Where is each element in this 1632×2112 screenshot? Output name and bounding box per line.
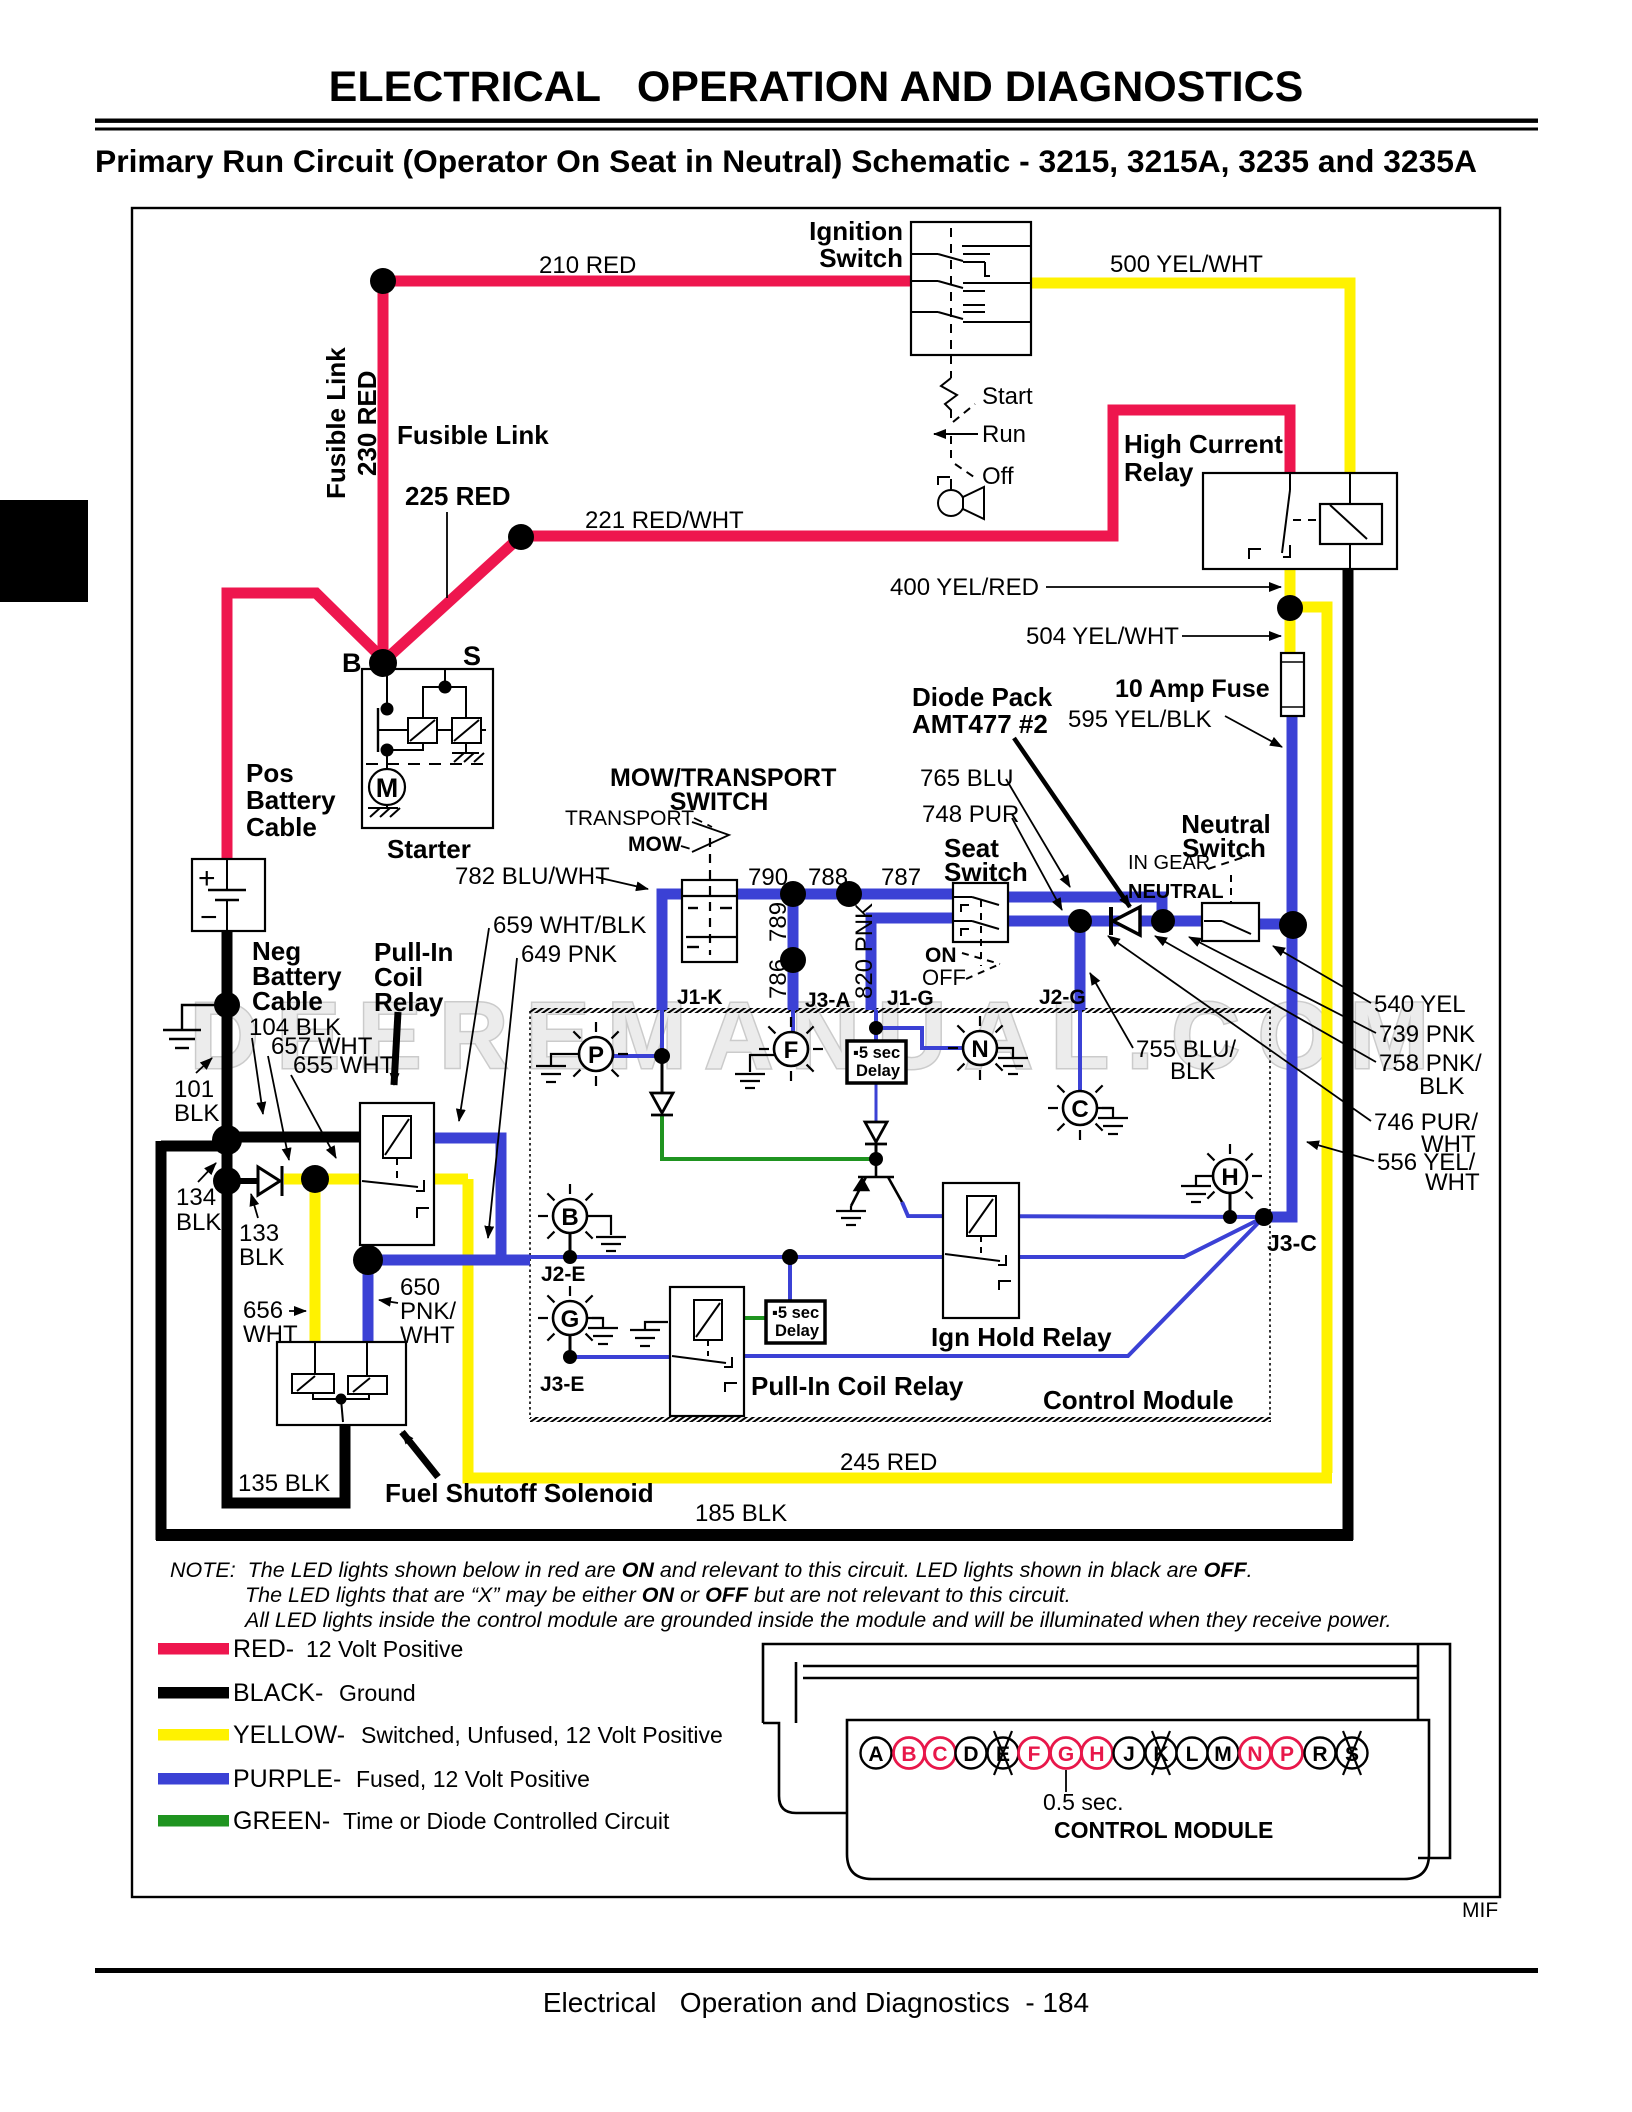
node 650 PNK junction	[353, 1245, 383, 1275]
LED H red	[1082, 1738, 1113, 1769]
legend GREEN swatch	[158, 1815, 229, 1827]
diode pack AMT477 #2 D1	[1111, 907, 1140, 935]
svg-text:M: M	[376, 773, 399, 803]
transistor Q1	[851, 1166, 902, 1206]
THIN MODULE WIRES	[530, 1010, 1264, 1357]
svg-text:12 Volt Positive: 12 Volt Positive	[306, 1636, 463, 1662]
svg-text:A: A	[868, 1743, 883, 1766]
pointer fuel shutoff solenoid arrow	[402, 1432, 438, 1477]
wire node drop to 5sec delay 2	[788, 1257, 792, 1301]
wire 245 RED bottom yellow run	[468, 1179, 1332, 1478]
svg-text:C: C	[932, 1743, 947, 1766]
svg-text:Cable: Cable	[252, 986, 323, 1016]
LED K crossed	[1146, 1738, 1177, 1769]
wire 656 WHT yellow into relay left	[284, 1174, 360, 1185]
svg-text:C: C	[1071, 1096, 1088, 1123]
svg-text:L: L	[1186, 1743, 1199, 1766]
wire 5sec to diode to transistor	[875, 1082, 878, 1121]
svg-text:CONTROL MODULE: CONTROL MODULE	[1054, 1817, 1273, 1843]
svg-text:PNK/: PNK/	[400, 1298, 456, 1325]
wire green module relay to 5sec	[744, 1316, 766, 1320]
wire 210 RED	[383, 276, 911, 287]
ground G	[587, 1318, 618, 1344]
wire 650 PNK/WHT relay right blue	[433, 1138, 501, 1264]
node 134 BLK junction	[213, 1167, 241, 1195]
wire diode to transistor node	[875, 1142, 878, 1166]
svg-text:Fusible Link: Fusible Link	[397, 420, 549, 450]
svg-text:WHT: WHT	[400, 1322, 455, 1349]
wire node to diode	[661, 1056, 664, 1092]
svg-text:185 BLK: 185 BLK	[695, 1500, 787, 1527]
svg-text:748 PUR: 748 PUR	[922, 801, 1019, 828]
ground C	[1097, 1108, 1128, 1134]
LED S crossed	[1337, 1738, 1368, 1769]
svg-text:WHT: WHT	[1425, 1169, 1480, 1196]
LED B	[538, 1184, 593, 1239]
wire black right side vertical	[1343, 568, 1354, 1540]
wire J2-G drop	[1075, 921, 1086, 1010]
ground N	[997, 1048, 1028, 1074]
svg-text:820 PNK: 820 PNK	[851, 903, 878, 999]
svg-text:Fused, 12 Volt Positive: Fused, 12 Volt Positive	[356, 1766, 590, 1792]
svg-text:Off: Off	[982, 463, 1014, 490]
svg-text:MIF: MIF	[1462, 1899, 1498, 1922]
svg-text:Delay: Delay	[775, 1322, 820, 1340]
svg-text:Diode Pack: Diode Pack	[912, 682, 1053, 712]
node 790 junction	[780, 881, 806, 907]
wire J3-E line to module relay	[570, 1355, 670, 1359]
svg-text:All LED lights inside the cont: All LED lights inside the control module…	[243, 1608, 1392, 1632]
wire seat switch lower to J2-G node	[1007, 916, 1202, 927]
svg-text:NEUTRAL: NEUTRAL	[1128, 881, 1224, 903]
svg-text:B: B	[561, 1204, 578, 1231]
svg-text:P: P	[588, 1042, 604, 1069]
ground F	[735, 1055, 775, 1088]
svg-text:▪5 sec: ▪5 sec	[853, 1044, 900, 1062]
wire blue elbow to J3-C	[1264, 1206, 1292, 1217]
LED C red	[925, 1738, 956, 1769]
wire main module blue J2-E line	[530, 1217, 1264, 1257]
LED F	[759, 1017, 823, 1081]
svg-text:ON: ON	[925, 944, 957, 967]
LED M	[1208, 1738, 1239, 1769]
svg-text:F: F	[1028, 1743, 1041, 1766]
svg-text:PURPLE-: PURPLE-	[233, 1765, 341, 1793]
svg-text:739 PNK: 739 PNK	[1379, 1021, 1475, 1048]
neutral switch S3	[1202, 855, 1259, 941]
10 amp fuse F1	[1281, 653, 1304, 716]
ignition key positions Start Run Off	[934, 355, 984, 519]
diode under 5sec	[865, 1122, 887, 1144]
wire 820 PNK J1-G drop	[871, 918, 953, 1010]
wire 782 BLU/WHT	[662, 894, 683, 1010]
node 788 junction	[836, 881, 862, 907]
svg-text:BLK: BLK	[1170, 1058, 1215, 1085]
0.5 sec pointer	[1065, 1770, 1067, 1792]
svg-text:210 RED: 210 RED	[539, 252, 636, 279]
LED D	[956, 1738, 987, 1769]
svg-text:Cable: Cable	[246, 812, 317, 842]
svg-text:787: 787	[881, 864, 921, 891]
svg-text:Pos: Pos	[246, 758, 294, 788]
svg-text:N: N	[1247, 1743, 1262, 1766]
svg-text:782 BLU/WHT: 782 BLU/WHT	[455, 863, 610, 890]
svg-text:Time or Diode Controlled Circu: Time or Diode Controlled Circuit	[343, 1808, 670, 1834]
svg-text:540 YEL: 540 YEL	[1374, 991, 1466, 1018]
svg-text:GREEN-: GREEN-	[233, 1807, 330, 1835]
wire J1-K thin to P node	[660, 1010, 664, 1056]
node J2-E junction	[563, 1250, 577, 1264]
wire pos battery cable	[227, 593, 383, 860]
svg-text:F: F	[784, 1037, 799, 1064]
svg-text:RED-: RED-	[233, 1635, 294, 1663]
wire J2-G thin to C	[1078, 1010, 1082, 1091]
wire transistor to H line	[902, 1202, 1264, 1217]
node P LED junction	[654, 1048, 670, 1064]
wire 650 PNK/WHT horizontal	[368, 1255, 530, 1266]
svg-text:10 Amp Fuse: 10 Amp Fuse	[1115, 675, 1270, 703]
svg-text:0.5 sec.: 0.5 sec.	[1043, 1789, 1124, 1815]
svg-text:J2-E: J2-E	[541, 1263, 585, 1286]
svg-text:M: M	[1214, 1743, 1232, 1766]
svg-text:The LED lights that are “X” ma: The LED lights that are “X” may be eithe…	[245, 1583, 1071, 1607]
node J3-C junction	[1255, 1208, 1273, 1226]
svg-text:TRANSPORT: TRANSPORT	[565, 807, 694, 830]
svg-text:J1-K: J1-K	[677, 986, 723, 1009]
5 sec delay box 1	[847, 1041, 906, 1083]
svg-text:765 BLU: 765 BLU	[920, 765, 1013, 792]
wire 101 BLK to outer left	[161, 1141, 232, 1152]
svg-text:504 YEL/WHT: 504 YEL/WHT	[1026, 623, 1179, 650]
svg-text:BLACK-: BLACK-	[233, 1679, 323, 1707]
svg-text:Ground: Ground	[339, 1680, 416, 1706]
wire J3-A thin to F	[791, 1010, 795, 1032]
svg-text:Relay: Relay	[374, 987, 444, 1017]
node H LED junction	[1223, 1210, 1237, 1224]
svg-text:Fusible Link: Fusible Link	[321, 347, 351, 499]
left edge black tab	[0, 500, 88, 602]
ground P	[536, 1054, 579, 1082]
svg-text:655 WHT: 655 WHT	[293, 1052, 395, 1079]
svg-text:G: G	[1058, 1743, 1074, 1766]
wire outer left vertical	[156, 1141, 167, 1540]
footer	[95, 1968, 1538, 1973]
svg-text:133: 133	[239, 1220, 279, 1247]
svg-text:G: G	[561, 1306, 580, 1333]
pointer 225 RED	[446, 512, 448, 598]
THICK WIRES	[156, 276, 1353, 1540]
fuel shutoff solenoid L1	[277, 1342, 406, 1425]
svg-text:786: 786	[765, 959, 792, 999]
svg-text:−: −	[200, 901, 218, 934]
LED P red	[1272, 1738, 1303, 1769]
svg-text:Run: Run	[982, 421, 1026, 448]
LED R	[1305, 1738, 1336, 1769]
node neutral switch blue junction	[1279, 911, 1307, 939]
svg-text:135 BLK: 135 BLK	[238, 1470, 330, 1497]
svg-text:Pull-In Coil Relay: Pull-In Coil Relay	[751, 1371, 964, 1401]
wire 789 786 J3-A drop	[788, 894, 799, 1010]
LED F red	[1019, 1738, 1050, 1769]
svg-text:BLK: BLK	[239, 1244, 284, 1271]
mow/transport switch S1	[682, 838, 738, 962]
NOTE text	[170, 1558, 1392, 1632]
wire J1-G thin	[874, 1010, 878, 1041]
svg-text:245 RED: 245 RED	[840, 1449, 937, 1476]
svg-text:Relay: Relay	[1124, 457, 1194, 487]
svg-text:J1-G: J1-G	[887, 987, 934, 1010]
svg-text:Electrical Operation and Dia: Electrical Operation and Diagnostics - 1…	[543, 1987, 1089, 2018]
svg-text:101: 101	[174, 1076, 214, 1103]
svg-text:J: J	[1123, 1743, 1135, 1766]
LEGEND	[158, 1635, 723, 1835]
node seat lower B junction	[1151, 909, 1175, 933]
wire node to N LED	[876, 1028, 963, 1048]
svg-text:R: R	[1312, 1743, 1327, 1766]
control module dashed border	[530, 1008, 1271, 1422]
schematic outer border	[132, 208, 1500, 1897]
node neg cable ground tap	[214, 992, 240, 1018]
svg-text:Primary Run Circuit (Operator: Primary Run Circuit (Operator On Seat in…	[95, 143, 1477, 179]
svg-text:649 PNK: 649 PNK	[521, 941, 617, 968]
node B battery terminal	[369, 649, 397, 677]
LED A	[861, 1738, 892, 1769]
svg-text:J2-G: J2-G	[1039, 986, 1086, 1009]
svg-text:MOW: MOW	[628, 833, 682, 856]
high current relay K1	[1203, 473, 1397, 569]
svg-text:ELECTRICAL OPERATION AND DIA: ELECTRICAL OPERATION AND DIAGNOSTICS	[329, 63, 1304, 111]
page title	[95, 63, 1538, 179]
svg-text:225 RED: 225 RED	[405, 481, 511, 511]
svg-text:P: P	[1280, 1743, 1294, 1766]
SCHEMATIC TEXT LABELS	[174, 216, 1482, 1527]
svg-text:Starter: Starter	[387, 834, 471, 864]
LED J	[1114, 1738, 1145, 1769]
pointer diode pack	[1014, 738, 1130, 907]
CONTROL MODULE picture	[763, 1644, 1450, 1879]
svg-text:650: 650	[400, 1274, 440, 1301]
svg-text:J3-E: J3-E	[540, 1373, 584, 1396]
node 221 RED junction	[508, 524, 534, 550]
LED N	[948, 1016, 1003, 1080]
wire B stub to J2-E	[569, 1233, 572, 1257]
legend YELLOW swatch	[158, 1729, 229, 1741]
wire H stub	[1229, 1194, 1232, 1217]
node seat lower A junction	[1068, 909, 1092, 933]
svg-text:B: B	[342, 648, 362, 678]
svg-text:Start: Start	[982, 383, 1033, 410]
wire neg battery cable	[222, 930, 233, 1183]
svg-text:656: 656	[243, 1297, 283, 1324]
legend BLACK swatch	[158, 1687, 229, 1699]
svg-text:B: B	[901, 1743, 916, 1766]
5 sec delay box 2	[766, 1301, 825, 1343]
svg-text:Fuel Shutoff Solenoid: Fuel Shutoff Solenoid	[385, 1478, 654, 1508]
node 504 YEL junction	[1277, 595, 1303, 621]
legend PURPLE swatch	[158, 1773, 229, 1785]
wire 595 YEL/BLK blue below fuse	[1287, 715, 1298, 1212]
svg-text:+: +	[198, 862, 216, 895]
svg-text:789: 789	[765, 902, 792, 942]
wire module relay to J3-C diagonal	[744, 1217, 1264, 1356]
svg-text:Switch: Switch	[944, 857, 1028, 887]
LED G red	[1051, 1738, 1082, 1769]
svg-text:Ign Hold Relay: Ign Hold Relay	[931, 1322, 1112, 1352]
wire 656 WHT yellow to solenoid	[310, 1179, 321, 1342]
wire 135 BLK	[227, 1178, 345, 1503]
node transistor green junction	[869, 1152, 883, 1166]
LED L	[1177, 1738, 1208, 1769]
node 210/230 RED junction	[370, 268, 396, 294]
svg-text:H: H	[1089, 1743, 1104, 1766]
svg-text:Switched, Unfused, 12 Volt Pos: Switched, Unfused, 12 Volt Positive	[361, 1722, 723, 1748]
svg-text:788: 788	[808, 864, 848, 891]
wire G stub to J3-E	[569, 1334, 572, 1357]
svg-text:WHT: WHT	[243, 1321, 298, 1348]
node 656 WHT yellow junction	[301, 1165, 329, 1193]
svg-text:595 YEL/BLK: 595 YEL/BLK	[1068, 706, 1212, 733]
ground battery	[163, 1005, 222, 1048]
seat switch S2	[953, 883, 1008, 979]
LED E crossed	[988, 1738, 1019, 1769]
svg-text:BLK: BLK	[1419, 1073, 1464, 1100]
LED G	[538, 1286, 602, 1341]
wire 556 YEL/WHT branch down right side	[1290, 607, 1327, 1473]
node J1-G module junction	[869, 1021, 883, 1035]
svg-text:N: N	[971, 1036, 988, 1063]
svg-text:659 WHT/BLK: 659 WHT/BLK	[493, 912, 646, 939]
svg-text:230 RED: 230 RED	[352, 371, 382, 477]
svg-text:NOTE: The LED lights shown be: NOTE: The LED lights shown below in red …	[170, 1558, 1253, 1582]
COMPONENT BOXES AND SYMBOLS	[163, 222, 1397, 1425]
wire 225 RED	[383, 536, 521, 662]
MODULE INTERNALS	[536, 1016, 1262, 1416]
svg-text:IN GEAR: IN GEAR	[1128, 852, 1210, 874]
svg-text:Battery: Battery	[246, 785, 336, 815]
control module LED row	[861, 1731, 1368, 1775]
svg-text:YELLOW-: YELLOW-	[233, 1721, 345, 1749]
svg-text:D: D	[963, 1743, 978, 1766]
wire fusible link 230 RED	[378, 276, 389, 660]
battery BT1	[192, 859, 265, 934]
svg-text:Switch: Switch	[819, 243, 903, 273]
svg-text:J3-A: J3-A	[805, 989, 851, 1012]
node ign hold line junction	[782, 1249, 798, 1265]
ground module relay	[630, 1322, 668, 1346]
legend RED swatch	[158, 1643, 229, 1655]
wire 650 PNK/WHT down to solenoid	[363, 1260, 374, 1342]
svg-text:High Current: High Current	[1124, 429, 1283, 459]
svg-text:Delay: Delay	[856, 1062, 901, 1080]
wire seat switch right upper to neutral	[1007, 897, 1162, 921]
LED N red	[1240, 1738, 1271, 1769]
diode 133 BLK	[258, 1166, 282, 1196]
pointer pull-in coil relay arrow	[394, 1012, 398, 1085]
wire 790 788 787 top blue	[736, 889, 953, 900]
wire neutral switch to main blue	[1259, 919, 1297, 930]
wire 500 YEL/WHT	[1031, 283, 1350, 474]
LED H	[1207, 1144, 1262, 1199]
ground H	[1181, 1176, 1213, 1202]
node 104 BLK junction	[212, 1125, 242, 1155]
svg-text:J3-C: J3-C	[1267, 1230, 1317, 1256]
LED C	[1048, 1085, 1112, 1140]
svg-text:Ignition: Ignition	[809, 216, 903, 246]
module pull-in coil relay K3	[670, 1287, 744, 1416]
svg-text:AMT477 #2: AMT477 #2	[912, 709, 1048, 739]
node 789 junction	[780, 947, 806, 973]
pull-in coil relay K2	[360, 1103, 434, 1245]
starter M1	[362, 669, 493, 828]
ground B	[587, 1216, 626, 1251]
svg-text:500 YEL/WHT: 500 YEL/WHT	[1110, 251, 1263, 278]
svg-text:BLK: BLK	[174, 1100, 219, 1127]
svg-text:134: 134	[176, 1184, 216, 1211]
svg-text:Control Module: Control Module	[1043, 1385, 1234, 1415]
wire 185 BLK	[156, 1529, 1353, 1541]
svg-text:H: H	[1221, 1164, 1238, 1191]
wire 134 BLK diode stub	[227, 1178, 258, 1184]
ign hold relay K4	[943, 1183, 1019, 1318]
wire yellow relay right to down elbow	[433, 1174, 468, 1185]
svg-text:▪5 sec: ▪5 sec	[772, 1304, 819, 1322]
ground transistor	[836, 1206, 866, 1225]
ignition switch U1	[911, 222, 1031, 355]
wire 504 YEL/WHT relay to fuse	[1285, 568, 1296, 654]
node J3-E junction	[563, 1350, 577, 1364]
svg-text:400 YEL/RED: 400 YEL/RED	[890, 574, 1039, 601]
wire P to node	[613, 1054, 662, 1058]
svg-text:S: S	[463, 641, 481, 671]
svg-text:BLK: BLK	[176, 1209, 221, 1236]
diode P node	[651, 1093, 673, 1115]
LED P	[573, 1022, 628, 1086]
wire green diode to transistor node	[662, 1116, 874, 1159]
svg-text:790: 790	[748, 864, 788, 891]
svg-text:221 RED/WHT: 221 RED/WHT	[585, 507, 744, 534]
wire 104 BLK to relay	[222, 1132, 360, 1143]
LED B red	[894, 1738, 925, 1769]
wire 221 RED/WHT	[516, 410, 1290, 536]
